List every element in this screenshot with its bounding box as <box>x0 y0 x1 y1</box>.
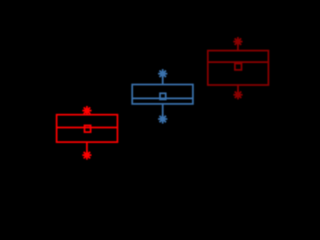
series 3 (dark red) box plot <box>208 37 269 99</box>
star marker min S2 <box>158 114 167 123</box>
box S1 <box>57 115 118 142</box>
wire whisker top S2 <box>162 74 164 85</box>
wire whisker bottom S1 <box>86 142 88 155</box>
median line S1 <box>57 127 118 129</box>
mean square marker S2 <box>160 93 166 99</box>
wire whisker top S1 <box>86 111 88 115</box>
star marker max S1 <box>82 106 91 115</box>
mean square marker S1 <box>85 125 91 132</box>
star marker min S3 <box>233 90 242 99</box>
star marker max S3 <box>233 37 242 46</box>
median line S3 <box>208 61 269 63</box>
wire whisker top S3 <box>237 42 239 51</box>
median line S2 <box>132 97 193 99</box>
wire whisker bottom S3 <box>237 85 239 95</box>
box S2 <box>132 85 193 104</box>
series 1 (red) box plot <box>57 106 118 160</box>
star marker max S2 <box>158 69 167 78</box>
box S3 <box>208 51 269 85</box>
wire whisker bottom S2 <box>162 104 164 119</box>
series 2 (blue) box plot <box>132 69 193 124</box>
star marker min S1 <box>82 151 91 160</box>
mean square marker S3 <box>235 64 242 70</box>
